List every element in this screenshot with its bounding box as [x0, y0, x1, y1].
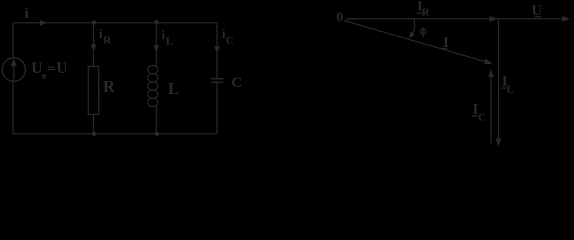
arrowhead IL	[496, 139, 502, 147]
arrow i top	[40, 20, 47, 26]
arrowhead IC	[488, 69, 494, 77]
wire left vertical	[12, 23, 14, 134]
arrow iL	[153, 45, 159, 52]
node top L	[154, 20, 158, 24]
underline IR	[417, 13, 422, 14]
wire C branch	[216, 23, 218, 134]
underline IL	[501, 87, 507, 88]
arrowhead U	[562, 16, 570, 22]
node bottom R	[92, 132, 96, 136]
arrowhead IR	[490, 16, 498, 22]
underline U	[535, 16, 541, 17]
phi symbol	[420, 29, 426, 34]
arrow iC	[214, 46, 220, 53]
svg-text:L: L	[507, 84, 514, 96]
arrowhead phi	[409, 32, 415, 39]
svg-text:L: L	[166, 35, 173, 47]
wire bottom	[13, 133, 217, 135]
svg-text:=: =	[47, 62, 55, 77]
phasor axis U line	[346, 18, 567, 20]
svg-text:C: C	[226, 35, 234, 47]
arrowhead I	[484, 59, 493, 65]
phasor IC line	[490, 78, 492, 144]
svg-text:U: U	[56, 60, 67, 77]
source U1	[2, 58, 25, 81]
svg-text:R: R	[422, 6, 431, 18]
underline IC	[472, 115, 478, 116]
arrow iR	[91, 44, 97, 51]
svg-text:0: 0	[336, 10, 343, 25]
wire top	[13, 22, 217, 24]
svg-text:L: L	[168, 79, 179, 98]
phasor IL line	[498, 20, 500, 140]
svg-text:I: I	[443, 35, 449, 51]
inductor L	[148, 65, 158, 106]
svg-text:C: C	[231, 75, 242, 91]
wire L branch	[155, 22, 157, 134]
wire R branch	[93, 23, 95, 134]
node top R	[92, 20, 96, 24]
svg-text:R: R	[103, 77, 116, 96]
svg-text:i: i	[25, 6, 29, 22]
resistor R	[88, 67, 98, 115]
phi arc	[413, 19, 415, 34]
svg-text:C: C	[478, 112, 486, 124]
source arrow	[13, 66, 14, 81]
svg-text:R: R	[103, 35, 112, 47]
svg-text:e: e	[42, 70, 47, 82]
svg-text:U: U	[532, 3, 543, 19]
capacitor C plates	[211, 79, 223, 83]
phasor I line	[344, 21, 487, 62]
underline I	[442, 48, 448, 49]
node bottom L	[155, 132, 159, 136]
